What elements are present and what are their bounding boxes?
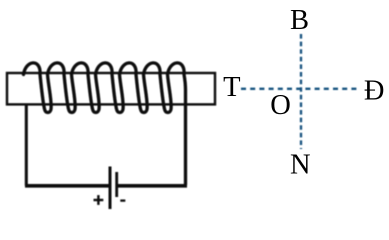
svg-text:B: B [290,5,309,36]
compass axis vertical B-N (dashed) [300,34,302,149]
wire: bottom left horizontal to battery + terminal [25,184,109,188]
svg-text:N: N [290,150,311,181]
battery polarity label + [94,195,104,205]
battery BT1: short plate (-) [115,172,118,197]
battery polarity label - [120,199,125,201]
svg-text:O: O [270,90,291,121]
battery BT1: long plate (+) [109,167,112,210]
wire: left lead down from coil [25,105,28,186]
coil L1 [24,63,186,185]
svg-text:T: T [223,72,240,103]
wire: bottom right horizontal from battery - terminal [118,184,187,188]
compass axis horizontal T-D (dashed) [241,88,357,90]
svg-text:Đ: Đ [364,76,385,107]
core (iron core bar) [7,73,215,104]
